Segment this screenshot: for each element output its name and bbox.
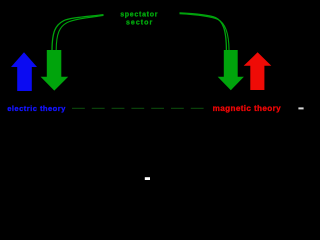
green down arrow (right) [218, 50, 244, 90]
white marker bottom center [145, 177, 150, 180]
dashed duality line [72, 107, 204, 109]
svg-text:magnetic theory: magnetic theory [213, 104, 282, 113]
right curve stroke a (spectator label to right green arrow) [180, 13, 227, 50]
green down arrow (left) [41, 50, 69, 91]
svg-text:sector: sector [126, 20, 153, 27]
white dash right edge [298, 107, 303, 109]
svg-text:electric theory: electric theory [7, 104, 66, 113]
red up arrow (right) [244, 52, 272, 90]
right curve stroke b [180, 14, 230, 50]
left curve stroke b [56, 16, 103, 51]
blue up arrow (left) [11, 52, 37, 91]
left curve stroke a (spectator label to left green arrow) [52, 15, 104, 50]
svg-text:spectator: spectator [120, 12, 158, 19]
